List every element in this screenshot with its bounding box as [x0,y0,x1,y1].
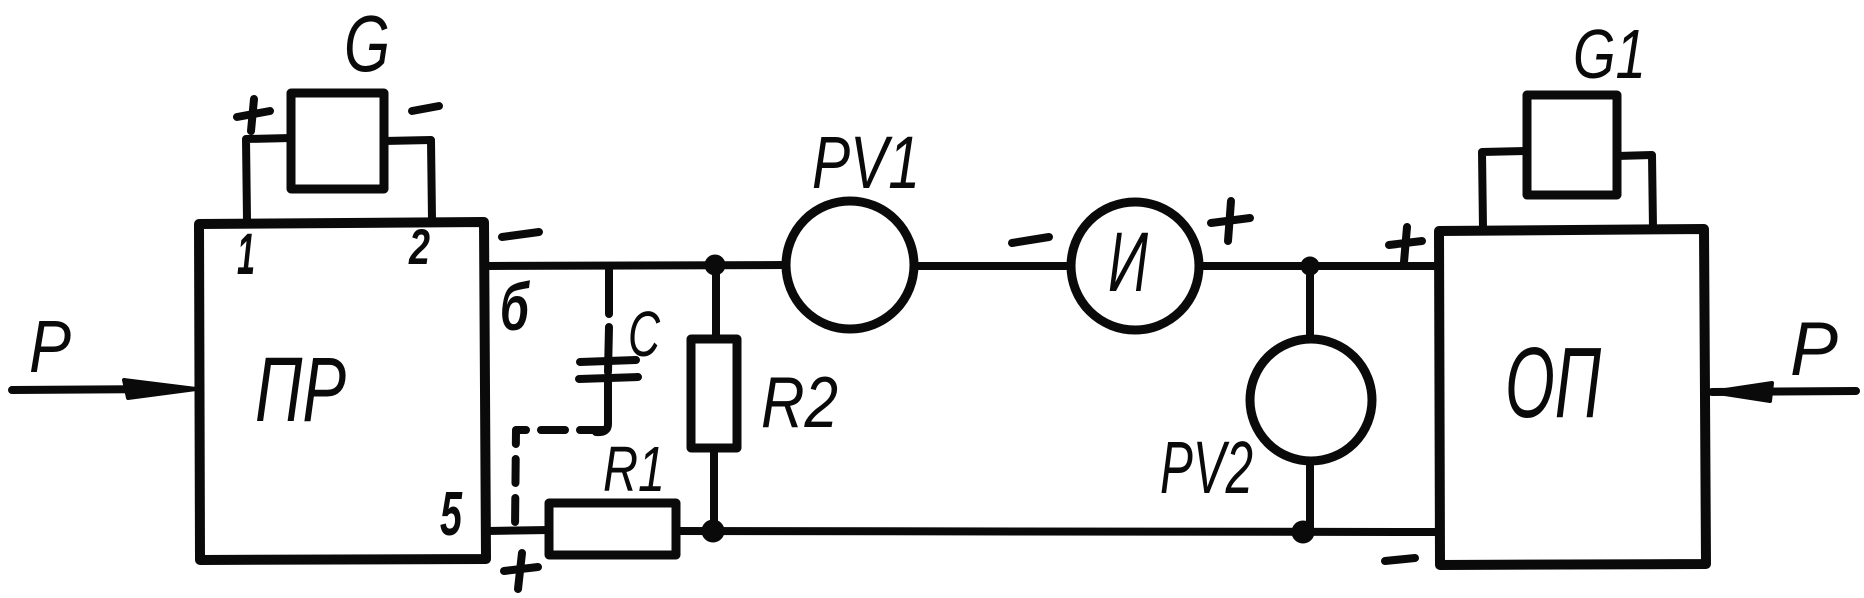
voltmeter PV2 [1250,339,1372,461]
wire G1 bracket right [1617,155,1653,229]
svg-text:G1: G1 [1573,15,1646,93]
svg-text:ОП: ОП [1505,327,1601,439]
wire top: ПР to PV1 [487,265,786,266]
wire ПР to R1 [487,530,549,531]
node junction PV2 bottom [1293,522,1313,542]
wire bottom: R1 to ОП [676,531,1439,532]
minus sign bottom right [1385,558,1415,561]
svg-text:ПР: ПР [255,339,346,441]
plus sign at ОП input [1389,227,1422,262]
svg-text:C: C [628,298,661,370]
wire И to ОП [1199,262,1439,270]
svg-text:P: P [29,305,71,388]
svg-text:5: 5 [440,480,463,549]
wire G1 bracket left [1482,151,1527,229]
svg-text:б: б [500,269,530,345]
capacitor C [608,268,609,372]
plus sign G [237,99,270,131]
wire R2 top lead [712,265,720,339]
wire G bracket right [384,140,432,220]
arrow P left [12,389,178,390]
svg-text:G: G [344,0,390,88]
svg-text:1: 1 [237,222,255,287]
svg-text:PV2: PV2 [1160,426,1253,509]
box ОП [1439,229,1706,565]
minus sign output ПР [502,232,539,237]
svg-text:2: 2 [408,219,430,275]
wire PV2 top lead [1306,266,1314,339]
node junction R2 bottom [703,521,723,541]
node junction R2 top [706,256,724,274]
resistor R2 [691,339,737,448]
generator G box [291,93,384,189]
meter И [1071,202,1199,330]
box ПР [199,222,486,560]
plus sign after И [1211,201,1250,241]
minus sign G [412,106,439,111]
generator G1 box [1527,95,1617,195]
arrow P right [1712,391,1856,392]
svg-text:R1: R1 [603,433,665,505]
svg-text:И: И [1108,215,1149,309]
svg-text:P: P [1790,307,1838,392]
wire dashed link C to node [515,430,604,529]
minus sign before И [1012,237,1049,243]
wire R2 bottom lead [710,448,718,531]
resistor R1 [549,503,676,555]
svg-text:R2: R2 [761,363,838,443]
voltmeter PV1 [786,201,914,329]
plus sign bottom left [504,553,538,589]
svg-text:PV1: PV1 [812,121,920,204]
wire PV2 bottom lead [1306,461,1314,531]
node junction PV2 top [1302,258,1318,274]
wire PV1 to И [914,262,1071,270]
wire G bracket left [246,138,291,220]
